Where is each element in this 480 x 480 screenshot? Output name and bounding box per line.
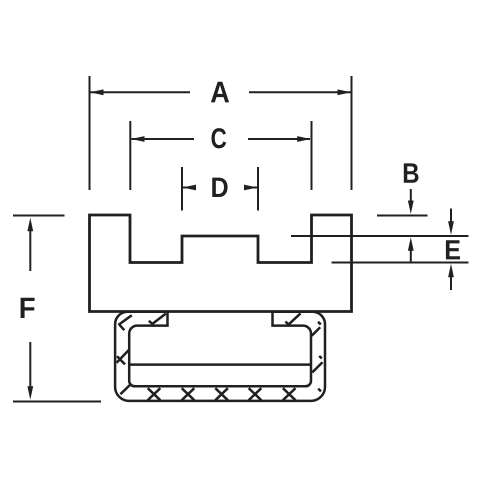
right wall X hatch (312, 356, 322, 373)
dimension D extension line (left) (181, 167, 183, 211)
plateau-top extension line (291, 235, 469, 237)
bottom X hatch row (148, 388, 161, 400)
dimension D arrow tails (183, 187, 257, 189)
gasket hatch marks (117, 313, 323, 400)
right lip hatch (285, 313, 300, 324)
arrow D left (183, 185, 197, 191)
label A (211, 82, 229, 103)
arrow C right (297, 136, 311, 142)
arrow F up (27, 218, 33, 232)
dimension A extension line (right) (351, 76, 353, 190)
arrow E down (448, 221, 454, 235)
arrow C left (131, 136, 145, 142)
dimension B extension line (377, 215, 428, 217)
gasket inner shelf line (129, 363, 311, 366)
label C (212, 128, 227, 148)
gasket channel outline (115, 312, 325, 401)
bottom-right corner hatch (318, 389, 321, 392)
left lip hatch (149, 314, 166, 324)
arrow D right (244, 185, 258, 191)
dimension B arrows tails (410, 189, 412, 262)
bottom-left corner hatch (120, 385, 130, 395)
dimension D extension line (right) (257, 167, 259, 211)
label E (446, 240, 460, 259)
dimension F line (29, 229, 31, 388)
dimension F extension line (top) (13, 215, 65, 217)
left wall X hatch (117, 350, 129, 365)
left corner hatch (118, 315, 132, 330)
extrusion profile outline (90, 215, 352, 312)
arrow E up (448, 264, 454, 278)
dimension A extension line (left) (89, 76, 91, 190)
label B (404, 163, 419, 182)
arrow A left (90, 89, 104, 95)
dimension A line (91, 91, 351, 93)
dimension E arrow tails (450, 209, 452, 291)
label D (212, 178, 227, 197)
arrowheads (27, 89, 454, 399)
dimension C line (132, 138, 311, 140)
shelf extension line (332, 262, 469, 264)
dimension F extension line (bottom) (13, 401, 101, 403)
dimension C extension line (left) (129, 121, 131, 190)
right corner hatch (312, 322, 321, 336)
arrow B down (408, 201, 414, 215)
arrow F down (27, 386, 33, 400)
arrow A right (338, 89, 352, 95)
dimension C extension line (right) (311, 121, 313, 190)
arrow B up (408, 237, 414, 251)
label F (21, 298, 35, 318)
